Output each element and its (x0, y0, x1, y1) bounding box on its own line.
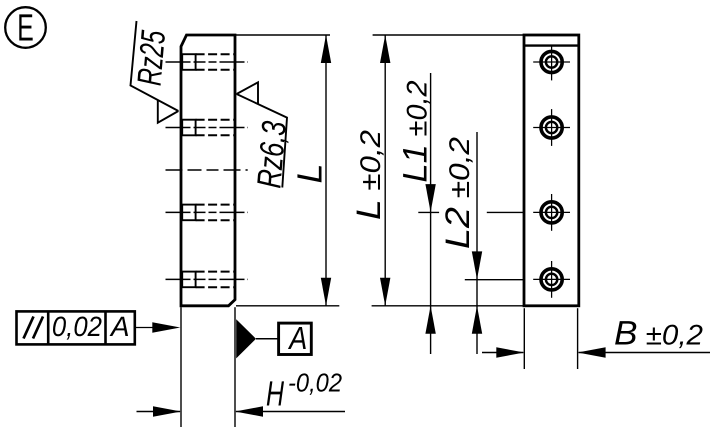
hole 1 hidden thread lines (196, 53, 234, 55)
datum leader (256, 338, 279, 340)
surface symbol Rz25 (131, 21, 179, 123)
svg-text:A: A (288, 320, 308, 356)
bottom extension line, right view (372, 305, 523, 307)
L1 measure tick (418, 211, 439, 213)
svg-text:A: A (109, 311, 130, 342)
B extension line left (523, 308, 525, 369)
top extension line, right view (373, 34, 523, 36)
break line (mid centerline) (166, 169, 248, 171)
hole 3 counterbore rectangle (182, 205, 195, 221)
hole 4 counterbore rectangle (182, 272, 195, 288)
hole 3 counterbore circle (541, 202, 562, 223)
front view chamfer edge line (524, 44, 579, 46)
hole 2 thread circle (546, 122, 557, 133)
hole 4 hidden thread lines (196, 271, 234, 273)
datum triangle (236, 319, 256, 358)
svg-text:-0,02: -0,02 (288, 368, 342, 398)
hole 3 centerline (left view) (166, 211, 249, 213)
dimension B line + arrows (482, 352, 523, 354)
dimension L line (325, 35, 327, 306)
hole 3 front view crosshair (533, 211, 570, 213)
hole 1 counterbore rectangle (182, 54, 195, 70)
B extension line right (577, 308, 579, 369)
H extension line left (180, 307, 182, 427)
front view outline (524, 35, 579, 306)
svg-text:H: H (266, 375, 285, 414)
hole 1 thread circle (546, 56, 557, 67)
hole 2 counterbore rectangle (182, 120, 195, 136)
svg-text:L1 ±0,2: L1 ±0,2 (397, 80, 435, 182)
hole 2 centerline (left view) (166, 127, 249, 129)
svg-text:Rz6,3: Rz6,3 (250, 120, 293, 190)
svg-text:E: E (17, 8, 34, 50)
L1 extension line from front view (487, 211, 523, 213)
dimension L ±0,2 line (384, 35, 386, 306)
detail marker circle E (5, 7, 46, 48)
parallelism symbol (24, 317, 34, 339)
hole 4 thread circle (546, 274, 557, 285)
svg-text:0,02: 0,02 (52, 311, 102, 342)
surface symbol Rz6,3 (237, 82, 287, 187)
dimension H line + arrows (137, 411, 181, 413)
hole 1 counterbore circle (541, 51, 562, 72)
svg-text:L2 ±0,2: L2 ±0,2 (439, 137, 477, 249)
hole 4 counterbore circle (541, 269, 562, 290)
hole 2 counterbore circle (541, 117, 562, 138)
svg-text:L: L (291, 164, 330, 184)
hole 2 front view crosshair (533, 127, 570, 129)
H extension line right (234, 307, 236, 427)
hole 4 centerline (left view) (166, 278, 249, 280)
hole 1 front view crosshair (533, 61, 570, 63)
svg-text:Rz25: Rz25 (131, 29, 173, 87)
dimension L2 ±0,2 line (476, 132, 478, 354)
hole 4 front view crosshair (533, 278, 570, 280)
hole 3 hidden thread lines (196, 204, 234, 206)
hole 3 thread circle (546, 207, 557, 218)
hole 2 hidden thread lines (196, 119, 234, 121)
feature control frame // 0,02 A (17, 311, 135, 344)
L2 extension line from front view (465, 279, 523, 281)
svg-text:L ±0,2: L ±0,2 (350, 130, 388, 220)
hole 1 centerline (left view) (166, 61, 249, 63)
svg-text:B ±0,2: B ±0,2 (614, 315, 703, 353)
left side view outline (181, 35, 235, 306)
FCF leader line + arrow (135, 327, 153, 329)
dimension L1 ±0,2 line (430, 73, 432, 354)
bottom extension line, left view (236, 305, 339, 307)
top extension line, left view (236, 34, 330, 36)
datum box A (279, 323, 312, 354)
